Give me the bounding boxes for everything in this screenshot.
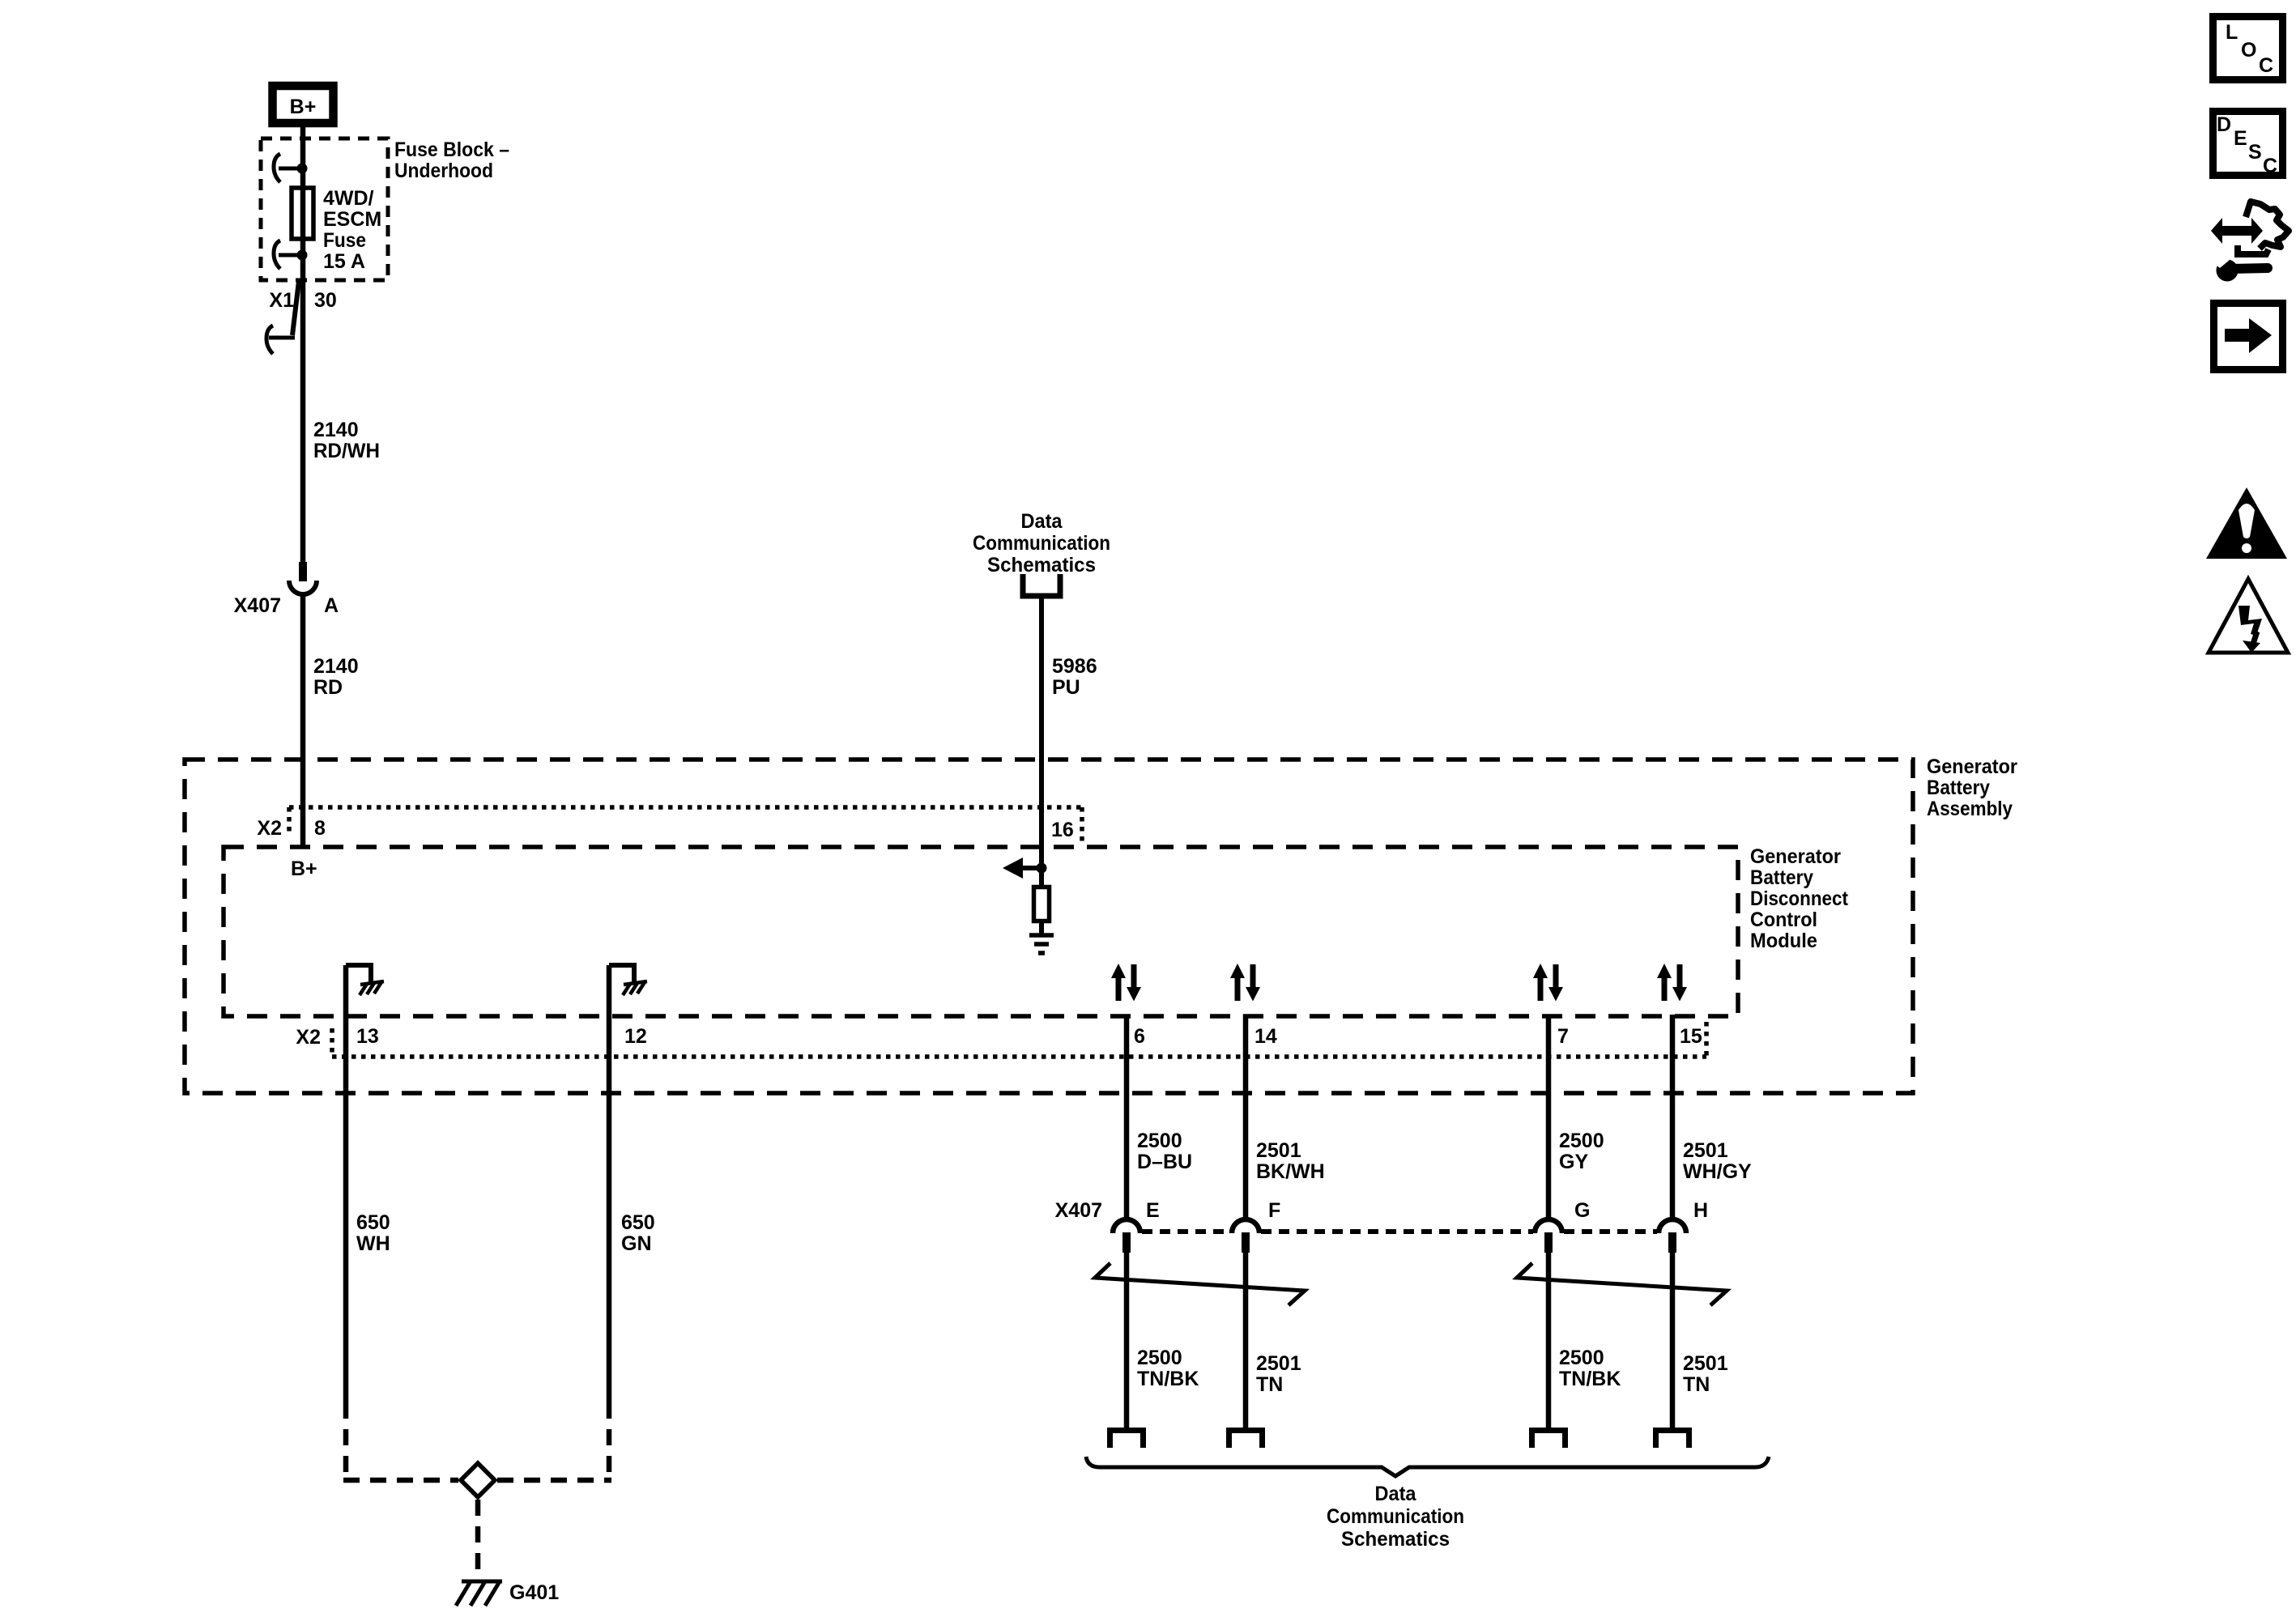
- svg-text:Data: Data: [1021, 510, 1063, 533]
- svg-text:O: O: [2241, 39, 2256, 62]
- svg-text:BK/WH: BK/WH: [1256, 1160, 1325, 1183]
- svg-text:G401: G401: [509, 1581, 559, 1604]
- svg-text:X1: X1: [269, 289, 294, 312]
- svg-text:Underhood: Underhood: [394, 160, 493, 182]
- svg-text:2140: 2140: [313, 655, 359, 678]
- svg-text:6: 6: [1134, 1025, 1145, 1048]
- svg-text:15 A: 15 A: [323, 250, 365, 273]
- svg-text:B+: B+: [291, 857, 317, 880]
- svg-text:Generator: Generator: [1750, 845, 1841, 868]
- svg-text:C: C: [2259, 54, 2273, 77]
- svg-text:2500: 2500: [1559, 1347, 1604, 1369]
- svg-text:Module: Module: [1750, 930, 1817, 952]
- svg-text:X2: X2: [257, 817, 282, 840]
- svg-text:5986: 5986: [1052, 655, 1097, 678]
- svg-text:Battery: Battery: [1750, 866, 1813, 889]
- svg-text:TN: TN: [1683, 1373, 1710, 1396]
- svg-text:WH/GY: WH/GY: [1683, 1160, 1752, 1183]
- svg-text:8: 8: [314, 817, 326, 840]
- svg-text:RD: RD: [313, 676, 343, 699]
- svg-text:2501: 2501: [1683, 1139, 1728, 1162]
- svg-text:X407: X407: [1055, 1199, 1102, 1222]
- svg-text:2501: 2501: [1256, 1352, 1301, 1375]
- svg-text:16: 16: [1051, 819, 1074, 841]
- svg-text:Generator: Generator: [1927, 755, 2017, 778]
- svg-text:2500: 2500: [1559, 1130, 1604, 1152]
- svg-text:13: 13: [356, 1025, 379, 1048]
- svg-text:H: H: [1693, 1199, 1708, 1222]
- svg-text:650: 650: [356, 1211, 390, 1234]
- svg-text:GY: GY: [1559, 1151, 1588, 1173]
- svg-text:2500: 2500: [1137, 1347, 1182, 1369]
- svg-text:B+: B+: [290, 96, 317, 118]
- svg-text:TN: TN: [1256, 1373, 1283, 1396]
- svg-text:E: E: [1146, 1199, 1160, 1222]
- svg-text:Fuse Block –: Fuse Block –: [394, 138, 509, 161]
- svg-text:7: 7: [1557, 1025, 1569, 1048]
- svg-text:Schematics: Schematics: [1341, 1528, 1450, 1551]
- svg-text:TN/BK: TN/BK: [1137, 1368, 1199, 1390]
- svg-text:2501: 2501: [1683, 1352, 1728, 1375]
- svg-text:C: C: [2263, 155, 2277, 177]
- svg-text:Disconnect: Disconnect: [1750, 887, 1849, 910]
- svg-text:14: 14: [1254, 1025, 1277, 1048]
- svg-text:2501: 2501: [1256, 1139, 1301, 1162]
- svg-text:Communication: Communication: [1327, 1505, 1464, 1528]
- svg-text:Data: Data: [1375, 1483, 1417, 1505]
- svg-text:Battery: Battery: [1927, 777, 1990, 799]
- svg-text:D–BU: D–BU: [1137, 1151, 1192, 1173]
- svg-text:G: G: [1574, 1199, 1590, 1222]
- svg-text:Communication: Communication: [973, 532, 1110, 555]
- svg-text:Control: Control: [1750, 908, 1817, 931]
- svg-text:WH: WH: [356, 1232, 390, 1255]
- svg-text:Schematics: Schematics: [987, 554, 1096, 577]
- svg-text:2500: 2500: [1137, 1130, 1182, 1152]
- svg-text:12: 12: [624, 1025, 647, 1048]
- svg-text:TN/BK: TN/BK: [1559, 1368, 1621, 1390]
- svg-text:X407: X407: [234, 594, 281, 617]
- svg-text:D: D: [2217, 113, 2231, 136]
- svg-text:X2: X2: [296, 1026, 321, 1049]
- svg-text:Assembly: Assembly: [1927, 798, 2013, 820]
- svg-text:2140: 2140: [313, 419, 359, 441]
- svg-text:RD/WH: RD/WH: [313, 440, 380, 462]
- svg-text:650: 650: [621, 1211, 655, 1234]
- svg-text:ESCM: ESCM: [323, 208, 381, 231]
- svg-text:Fuse: Fuse: [323, 229, 366, 252]
- svg-text:GN: GN: [621, 1232, 652, 1255]
- svg-text:4WD/: 4WD/: [323, 187, 374, 210]
- svg-text:S: S: [2248, 141, 2262, 164]
- svg-text:15: 15: [1680, 1025, 1702, 1048]
- svg-text:A: A: [324, 594, 339, 617]
- svg-text:30: 30: [314, 289, 337, 312]
- svg-text:PU: PU: [1052, 676, 1080, 699]
- svg-text:F: F: [1268, 1199, 1280, 1222]
- svg-text:L: L: [2226, 21, 2238, 44]
- svg-text:E: E: [2234, 127, 2247, 150]
